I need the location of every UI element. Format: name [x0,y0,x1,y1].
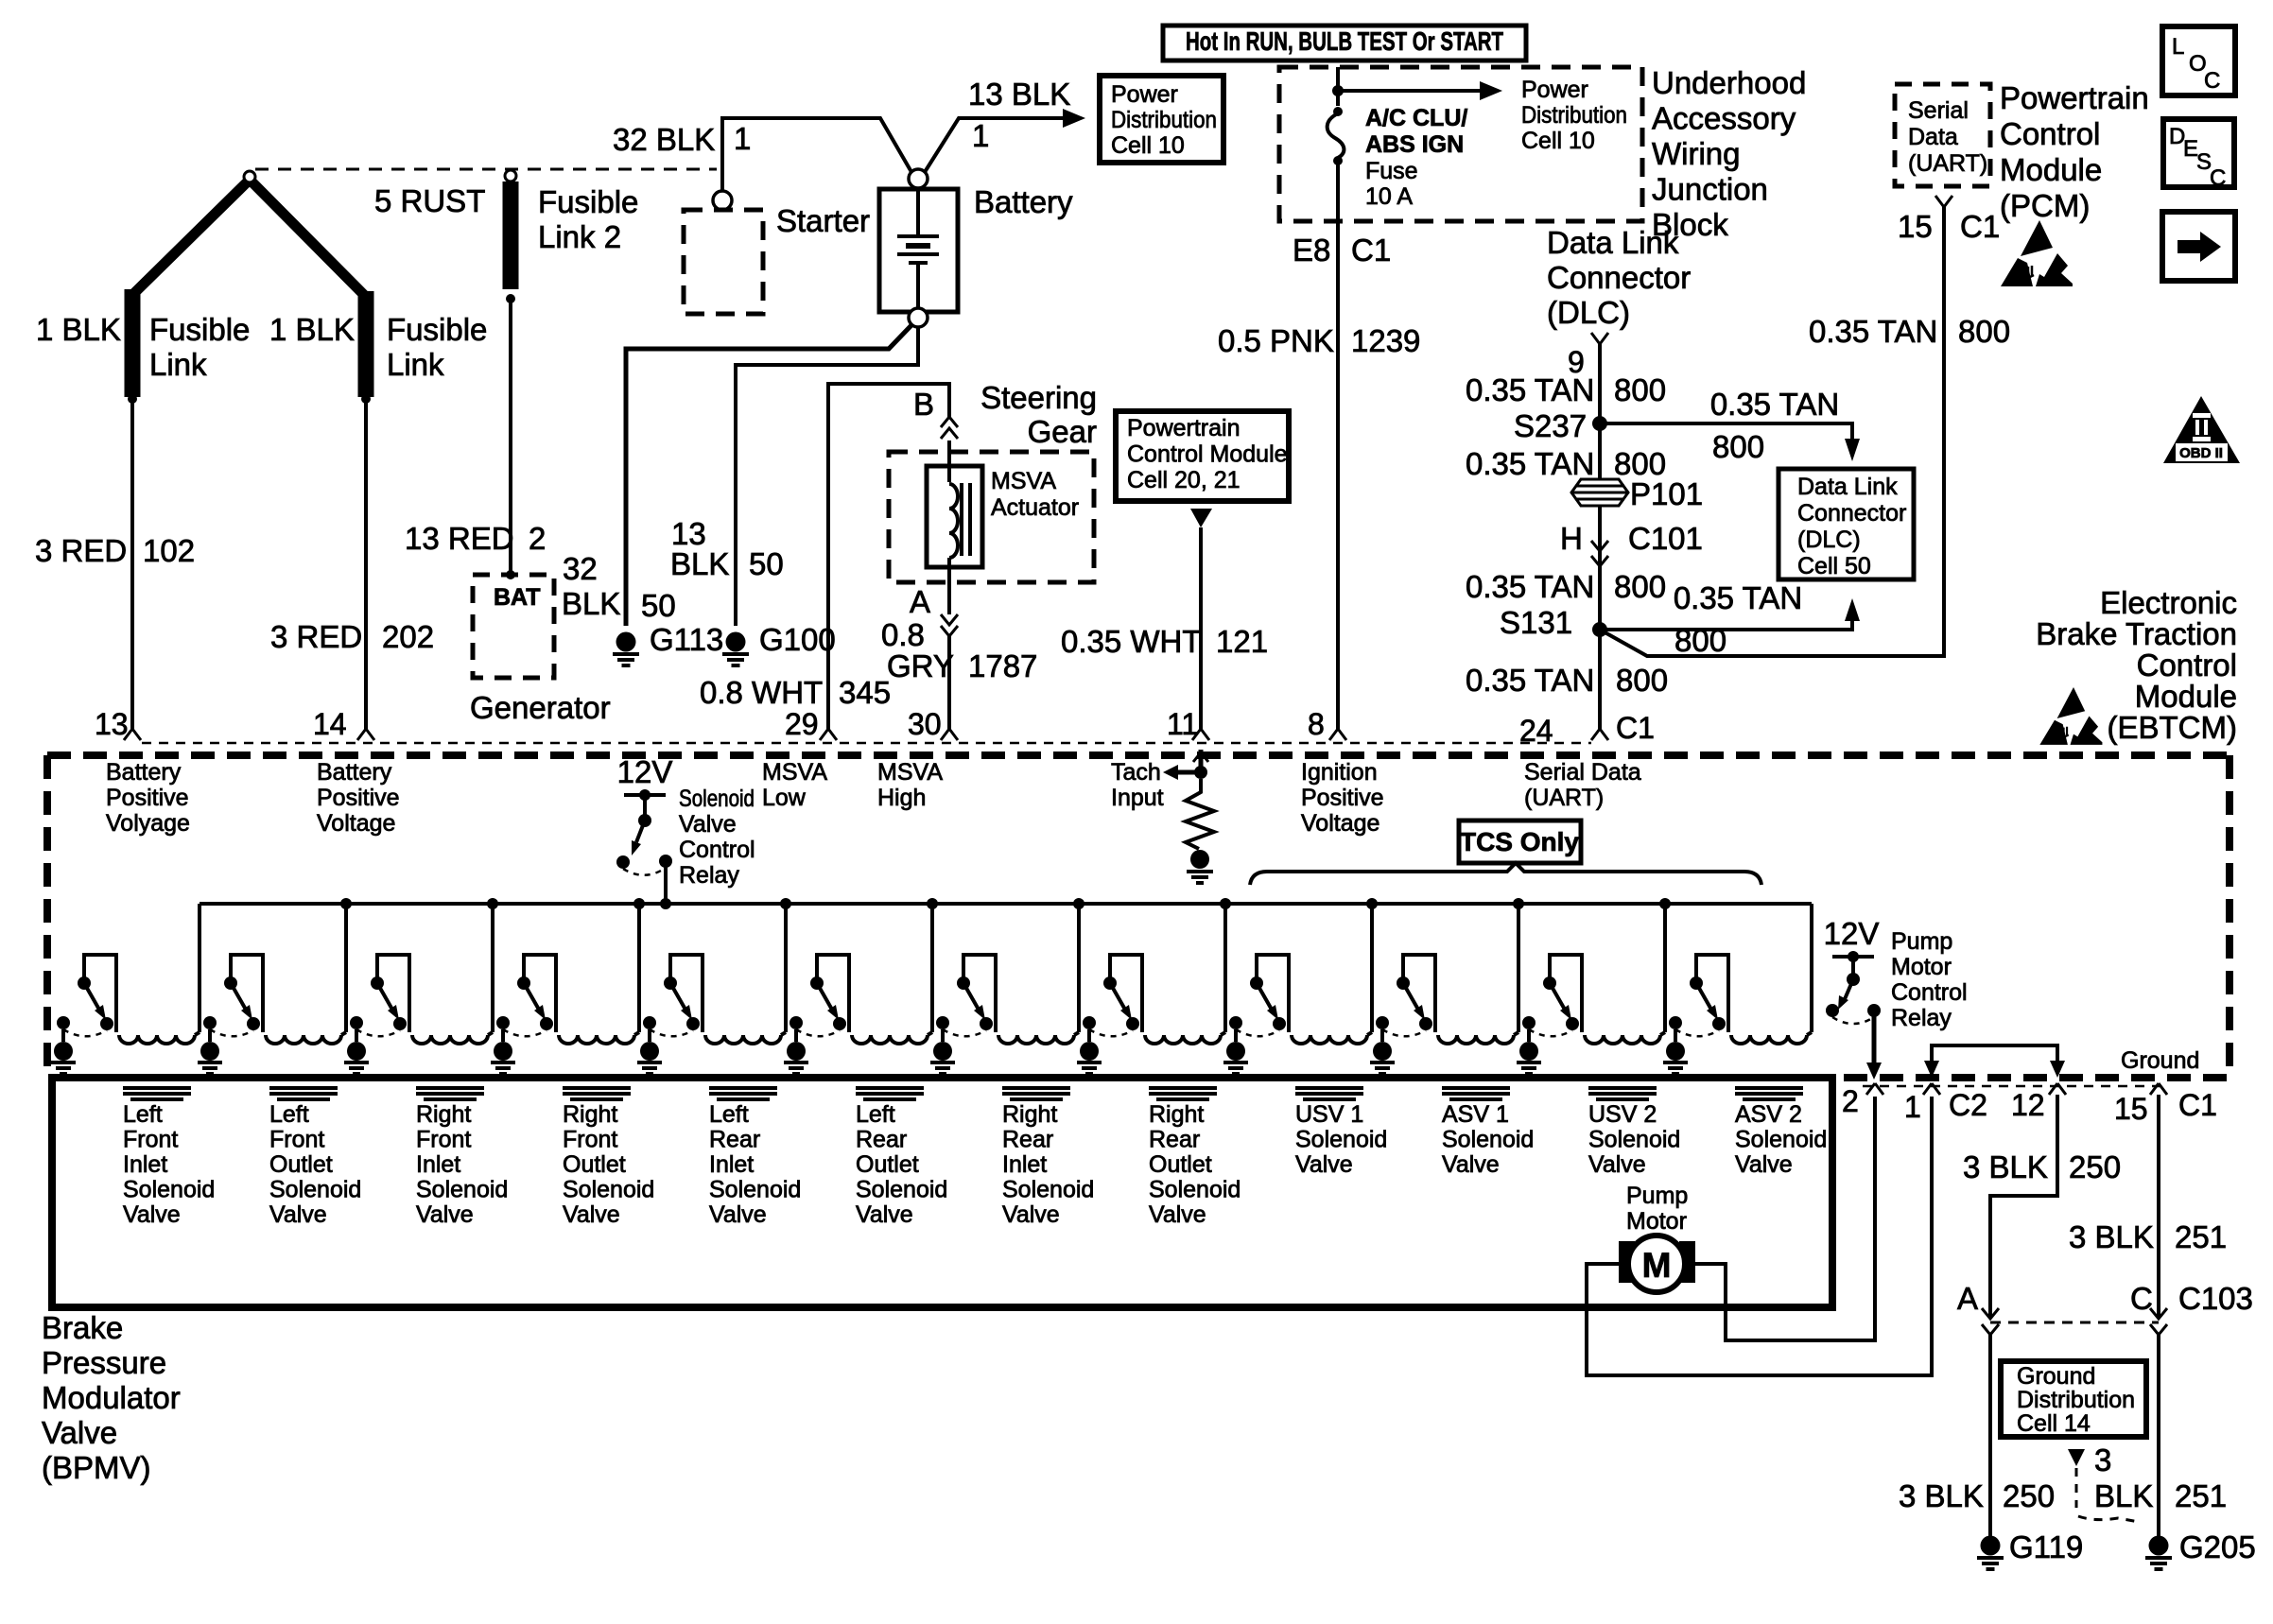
svg-text:Rear: Rear [709,1127,760,1153]
svg-text:Fuse: Fuse [1365,158,1418,184]
svg-text:Fusible: Fusible [149,312,250,347]
svg-text:Valve: Valve [563,1201,620,1228]
svg-text:MSVA: MSVA [877,759,943,786]
svg-text:Left: Left [709,1101,749,1128]
svg-text:C: C [2204,68,2220,94]
svg-text:3 BLK: 3 BLK [1963,1149,2048,1184]
svg-text:G205: G205 [2179,1529,2256,1564]
svg-text:Solenoid: Solenoid [1442,1127,1534,1153]
svg-text:BLK: BLK [2094,1478,2153,1513]
svg-text:Solenoid: Solenoid [1002,1177,1094,1203]
svg-text:Generator: Generator [470,690,611,725]
svg-text:(DLC): (DLC) [1547,295,1630,330]
svg-text:OBD II: OBD II [2179,445,2223,461]
svg-text:Solenoid: Solenoid [563,1177,654,1203]
svg-text:Serial: Serial [1908,97,1969,124]
svg-text:Inlet: Inlet [123,1151,167,1178]
svg-text:Solenoid: Solenoid [1735,1127,1827,1153]
svg-text:1787: 1787 [968,648,1037,683]
svg-text:(PCM): (PCM) [2000,188,2090,223]
svg-text:0.35 TAN: 0.35 TAN [1710,387,1839,422]
svg-text:M: M [1642,1246,1672,1285]
svg-text:USV 2: USV 2 [1588,1101,1657,1128]
svg-text:Link: Link [387,347,444,382]
svg-text:Valve: Valve [1295,1151,1353,1178]
svg-text:Front: Front [269,1127,324,1153]
svg-text:Module: Module [2135,679,2237,714]
svg-text:BLK: BLK [562,586,620,621]
svg-text:BAT: BAT [494,584,541,611]
svg-text:Front: Front [123,1127,178,1153]
svg-text:Inlet: Inlet [416,1151,460,1178]
svg-text:Steering: Steering [980,380,1097,415]
svg-text:Relay: Relay [1891,1005,1952,1031]
svg-text:(BPMV): (BPMV) [42,1450,151,1485]
svg-text:Valve: Valve [123,1201,181,1228]
svg-text:Rear: Rear [1002,1127,1053,1153]
svg-text:5 RUST: 5 RUST [374,183,485,218]
svg-text:C1: C1 [1960,209,2000,244]
svg-text:102: 102 [143,533,195,568]
svg-text:Left: Left [123,1101,163,1128]
svg-text:2: 2 [1842,1084,1859,1118]
svg-text:Data Link: Data Link [1547,225,1679,260]
svg-text:A/C CLU/: A/C CLU/ [1365,105,1467,131]
svg-text:S131: S131 [1500,605,1572,640]
svg-text:Actuator: Actuator [991,494,1079,521]
svg-text:Valve: Valve [856,1201,913,1228]
svg-text:ASV 1: ASV 1 [1442,1101,1509,1128]
svg-text:Valve: Valve [709,1201,767,1228]
svg-text:3 RED: 3 RED [270,619,362,654]
svg-text:C101: C101 [1628,521,1703,556]
svg-text:(DLC): (DLC) [1797,527,1861,553]
svg-text:Relay: Relay [679,862,739,889]
svg-text:1: 1 [972,118,989,153]
svg-text:251: 251 [2175,1219,2227,1254]
svg-text:251: 251 [2175,1478,2227,1513]
svg-text:32: 32 [563,551,598,586]
svg-text:Pump: Pump [1626,1183,1688,1209]
svg-text:Control: Control [2000,116,2100,151]
svg-text:12V: 12V [1824,916,1880,951]
svg-text:Cell 10: Cell 10 [1111,132,1185,159]
svg-text:Electronic: Electronic [2100,585,2237,620]
svg-text:Solenoid: Solenoid [123,1177,215,1203]
svg-text:Control: Control [679,837,755,863]
svg-text:Outlet: Outlet [856,1151,919,1178]
svg-text:Right: Right [1002,1101,1057,1128]
svg-text:Valve: Valve [1442,1151,1500,1178]
svg-text:Pump: Pump [1891,928,1952,955]
svg-text:1: 1 [734,121,751,156]
svg-text:1 BLK: 1 BLK [269,312,355,347]
svg-text:Solenoid: Solenoid [679,786,755,812]
svg-text:Wiring: Wiring [1652,136,1741,171]
svg-text:Solenoid: Solenoid [1588,1127,1680,1153]
svg-text:G100: G100 [759,622,836,657]
svg-text:Solenoid: Solenoid [709,1177,801,1203]
svg-text:USV 1: USV 1 [1295,1101,1363,1128]
svg-text:50: 50 [641,588,676,623]
svg-text:Serial Data: Serial Data [1524,759,1641,786]
svg-text:ASV 2: ASV 2 [1735,1101,1802,1128]
svg-text:800: 800 [1616,663,1668,698]
svg-text:(EBTCM): (EBTCM) [2108,710,2237,745]
svg-text:Valve: Valve [42,1415,117,1450]
svg-text:13: 13 [95,707,129,741]
svg-text:ABS IGN: ABS IGN [1365,131,1464,158]
svg-text:Power: Power [1111,81,1178,108]
svg-text:Solenoid: Solenoid [1295,1127,1387,1153]
svg-text:Right: Right [563,1101,617,1128]
svg-text:BLK: BLK [670,546,729,581]
svg-text:0.35 TAN: 0.35 TAN [1466,663,1594,698]
svg-text:Valve: Valve [269,1201,327,1228]
svg-text:A: A [910,584,930,619]
svg-text:Rear: Rear [1149,1127,1200,1153]
svg-text:0.35 TAN: 0.35 TAN [1466,569,1594,604]
svg-text:30: 30 [908,707,942,741]
svg-text:C1: C1 [1351,233,1391,268]
svg-text:Brake: Brake [42,1310,123,1345]
svg-text:Fusible: Fusible [387,312,487,347]
svg-text:Solenoid: Solenoid [269,1177,361,1203]
svg-text:(UART): (UART) [1908,150,1987,177]
svg-text:MSVA: MSVA [762,759,827,786]
svg-text:TCS Only: TCS Only [1460,827,1579,856]
svg-text:Cell 10: Cell 10 [1521,128,1595,154]
svg-text:Valve: Valve [1735,1151,1793,1178]
svg-text:250: 250 [2069,1149,2121,1184]
svg-text:Distribution: Distribution [2017,1387,2135,1413]
svg-text:Right: Right [416,1101,471,1128]
svg-text:250: 250 [2003,1478,2055,1513]
svg-text:1 BLK: 1 BLK [36,312,121,347]
svg-text:Distribution: Distribution [1521,102,1627,129]
svg-text:Link: Link [149,347,207,382]
svg-text:Motor: Motor [1891,954,1952,980]
svg-text:(UART): (UART) [1524,785,1604,811]
svg-text:Cell 14: Cell 14 [2017,1410,2091,1437]
svg-text:12V: 12V [617,754,673,789]
svg-text:G113: G113 [650,622,723,657]
svg-text:Brake Traction: Brake Traction [2036,616,2237,651]
svg-text:Gear: Gear [1028,414,1097,449]
svg-text:Motor: Motor [1626,1208,1687,1235]
svg-text:Cell 20, 21: Cell 20, 21 [1127,467,1241,493]
svg-text:Positive: Positive [317,785,400,811]
svg-text:C2: C2 [1949,1088,1987,1122]
svg-text:L: L [2172,34,2184,60]
svg-text:Cell 50: Cell 50 [1797,553,1871,579]
svg-text:10 A: 10 A [1365,183,1413,210]
svg-text:Hot In RUN, BULB TEST Or START: Hot In RUN, BULB TEST Or START [1186,26,1503,56]
svg-text:Connector: Connector [1547,260,1691,295]
svg-text:15: 15 [1898,209,1933,244]
svg-text:Module: Module [2000,152,2102,187]
svg-text:Solenoid: Solenoid [856,1177,947,1203]
svg-text:800: 800 [1614,372,1666,407]
svg-text:Tach: Tach [1111,759,1161,786]
svg-text:Right: Right [1149,1101,1204,1128]
svg-text:1239: 1239 [1351,323,1420,358]
svg-text:8: 8 [1308,707,1325,741]
svg-text:Ground: Ground [2017,1363,2095,1390]
svg-text:S237: S237 [1514,408,1587,443]
svg-text:Battery: Battery [317,759,392,786]
svg-text:121: 121 [1216,624,1268,659]
svg-text:Valve: Valve [1002,1201,1060,1228]
svg-text:0.35 TAN: 0.35 TAN [1809,314,1937,349]
svg-text:11: 11 [1167,707,1198,741]
svg-text:Input: Input [1111,785,1164,811]
svg-text:Powertrain: Powertrain [1127,415,1241,441]
svg-text:0.8 WHT: 0.8 WHT [700,675,823,710]
svg-text:3 BLK: 3 BLK [1899,1478,1984,1513]
svg-text:Low: Low [762,785,807,811]
svg-text:Voltage: Voltage [317,810,395,837]
svg-text:202: 202 [382,619,434,654]
svg-text:Starter: Starter [776,203,870,238]
svg-text:Power: Power [1521,77,1588,103]
svg-text:Outlet: Outlet [1149,1151,1212,1178]
svg-text:Inlet: Inlet [1002,1151,1047,1178]
svg-text:H: H [1560,521,1583,556]
svg-text:Link 2: Link 2 [538,219,621,254]
svg-text:Modulator: Modulator [42,1380,181,1415]
svg-text:12: 12 [2011,1088,2045,1122]
svg-text:Junction: Junction [1652,172,1768,207]
svg-text:C1: C1 [2178,1088,2217,1122]
svg-text:Battery: Battery [974,184,1073,219]
svg-text:A: A [1957,1281,1978,1316]
svg-text:Control Module: Control Module [1127,441,1288,468]
svg-text:Connector: Connector [1797,500,1906,527]
svg-text:Solenoid: Solenoid [416,1177,508,1203]
svg-text:800: 800 [1712,429,1764,464]
svg-text:Solenoid: Solenoid [1149,1177,1241,1203]
svg-text:Accessory: Accessory [1652,101,1796,136]
svg-text:13 RED: 13 RED [405,521,514,556]
svg-text:1: 1 [1904,1090,1921,1124]
svg-text:MSVA: MSVA [991,468,1056,494]
svg-text:800: 800 [1614,569,1666,604]
svg-text:Positive: Positive [1301,785,1384,811]
svg-text:P101: P101 [1630,476,1703,511]
svg-text:Pressure: Pressure [42,1345,166,1380]
svg-text:Left: Left [856,1101,895,1128]
svg-text:C103: C103 [2178,1281,2253,1316]
svg-text:Inlet: Inlet [709,1151,754,1178]
svg-text:C: C [2130,1281,2153,1316]
svg-text:Left: Left [269,1101,309,1128]
svg-text:800: 800 [1958,314,2010,349]
svg-text:Data Link: Data Link [1797,474,1898,500]
svg-text:Data: Data [1908,124,1958,150]
svg-text:Front: Front [563,1127,617,1153]
svg-text:800: 800 [1674,623,1726,658]
svg-text:2: 2 [529,521,546,556]
svg-text:Outlet: Outlet [563,1151,626,1178]
svg-text:Battery: Battery [106,759,182,786]
svg-text:29: 29 [785,707,819,741]
svg-text:3: 3 [2094,1443,2111,1477]
svg-text:14: 14 [313,707,347,741]
svg-text:Positive: Positive [106,785,189,811]
svg-text:3 RED: 3 RED [35,533,127,568]
svg-text:C1: C1 [1616,711,1655,745]
svg-text:Fusible: Fusible [538,184,638,219]
svg-text:Control: Control [2137,648,2237,682]
svg-text:15: 15 [2114,1092,2148,1126]
svg-text:E8: E8 [1293,233,1330,268]
svg-text:Voltage: Voltage [1301,810,1379,837]
svg-text:0.35 TAN: 0.35 TAN [1466,446,1594,481]
svg-text:C: C [2210,165,2226,191]
svg-text:0.35 WHT: 0.35 WHT [1061,624,1202,659]
svg-text:0.35 TAN: 0.35 TAN [1674,580,1802,615]
svg-text:Valve: Valve [1149,1201,1206,1228]
svg-text:50: 50 [749,546,784,581]
svg-text:Volyage: Volyage [106,810,190,837]
svg-text:0.35 TAN: 0.35 TAN [1466,372,1594,407]
svg-text:Rear: Rear [856,1127,907,1153]
svg-text:Ground: Ground [2121,1047,2199,1074]
svg-text:13 BLK: 13 BLK [968,77,1070,112]
svg-text:0.5 PNK: 0.5 PNK [1218,323,1334,358]
svg-text:3 BLK: 3 BLK [2069,1219,2154,1254]
svg-text:345: 345 [839,675,891,710]
svg-text:Front: Front [416,1127,471,1153]
svg-text:Ignition: Ignition [1301,759,1378,786]
svg-text:32 BLK: 32 BLK [613,122,715,157]
svg-text:0.8: 0.8 [881,617,925,652]
svg-text:Underhood: Underhood [1652,65,1806,100]
svg-text:Outlet: Outlet [269,1151,333,1178]
svg-text:Powertrain: Powertrain [2000,80,2149,115]
svg-text:Control: Control [1891,979,1968,1006]
svg-text:Valve: Valve [679,811,737,838]
svg-text:B: B [913,387,934,422]
svg-text:GRY: GRY [887,648,954,683]
svg-text:Distribution: Distribution [1111,107,1217,133]
svg-text:High: High [877,785,926,811]
svg-text:Valve: Valve [1588,1151,1646,1178]
svg-text:Valve: Valve [416,1201,474,1228]
svg-text:G119: G119 [2009,1529,2083,1564]
